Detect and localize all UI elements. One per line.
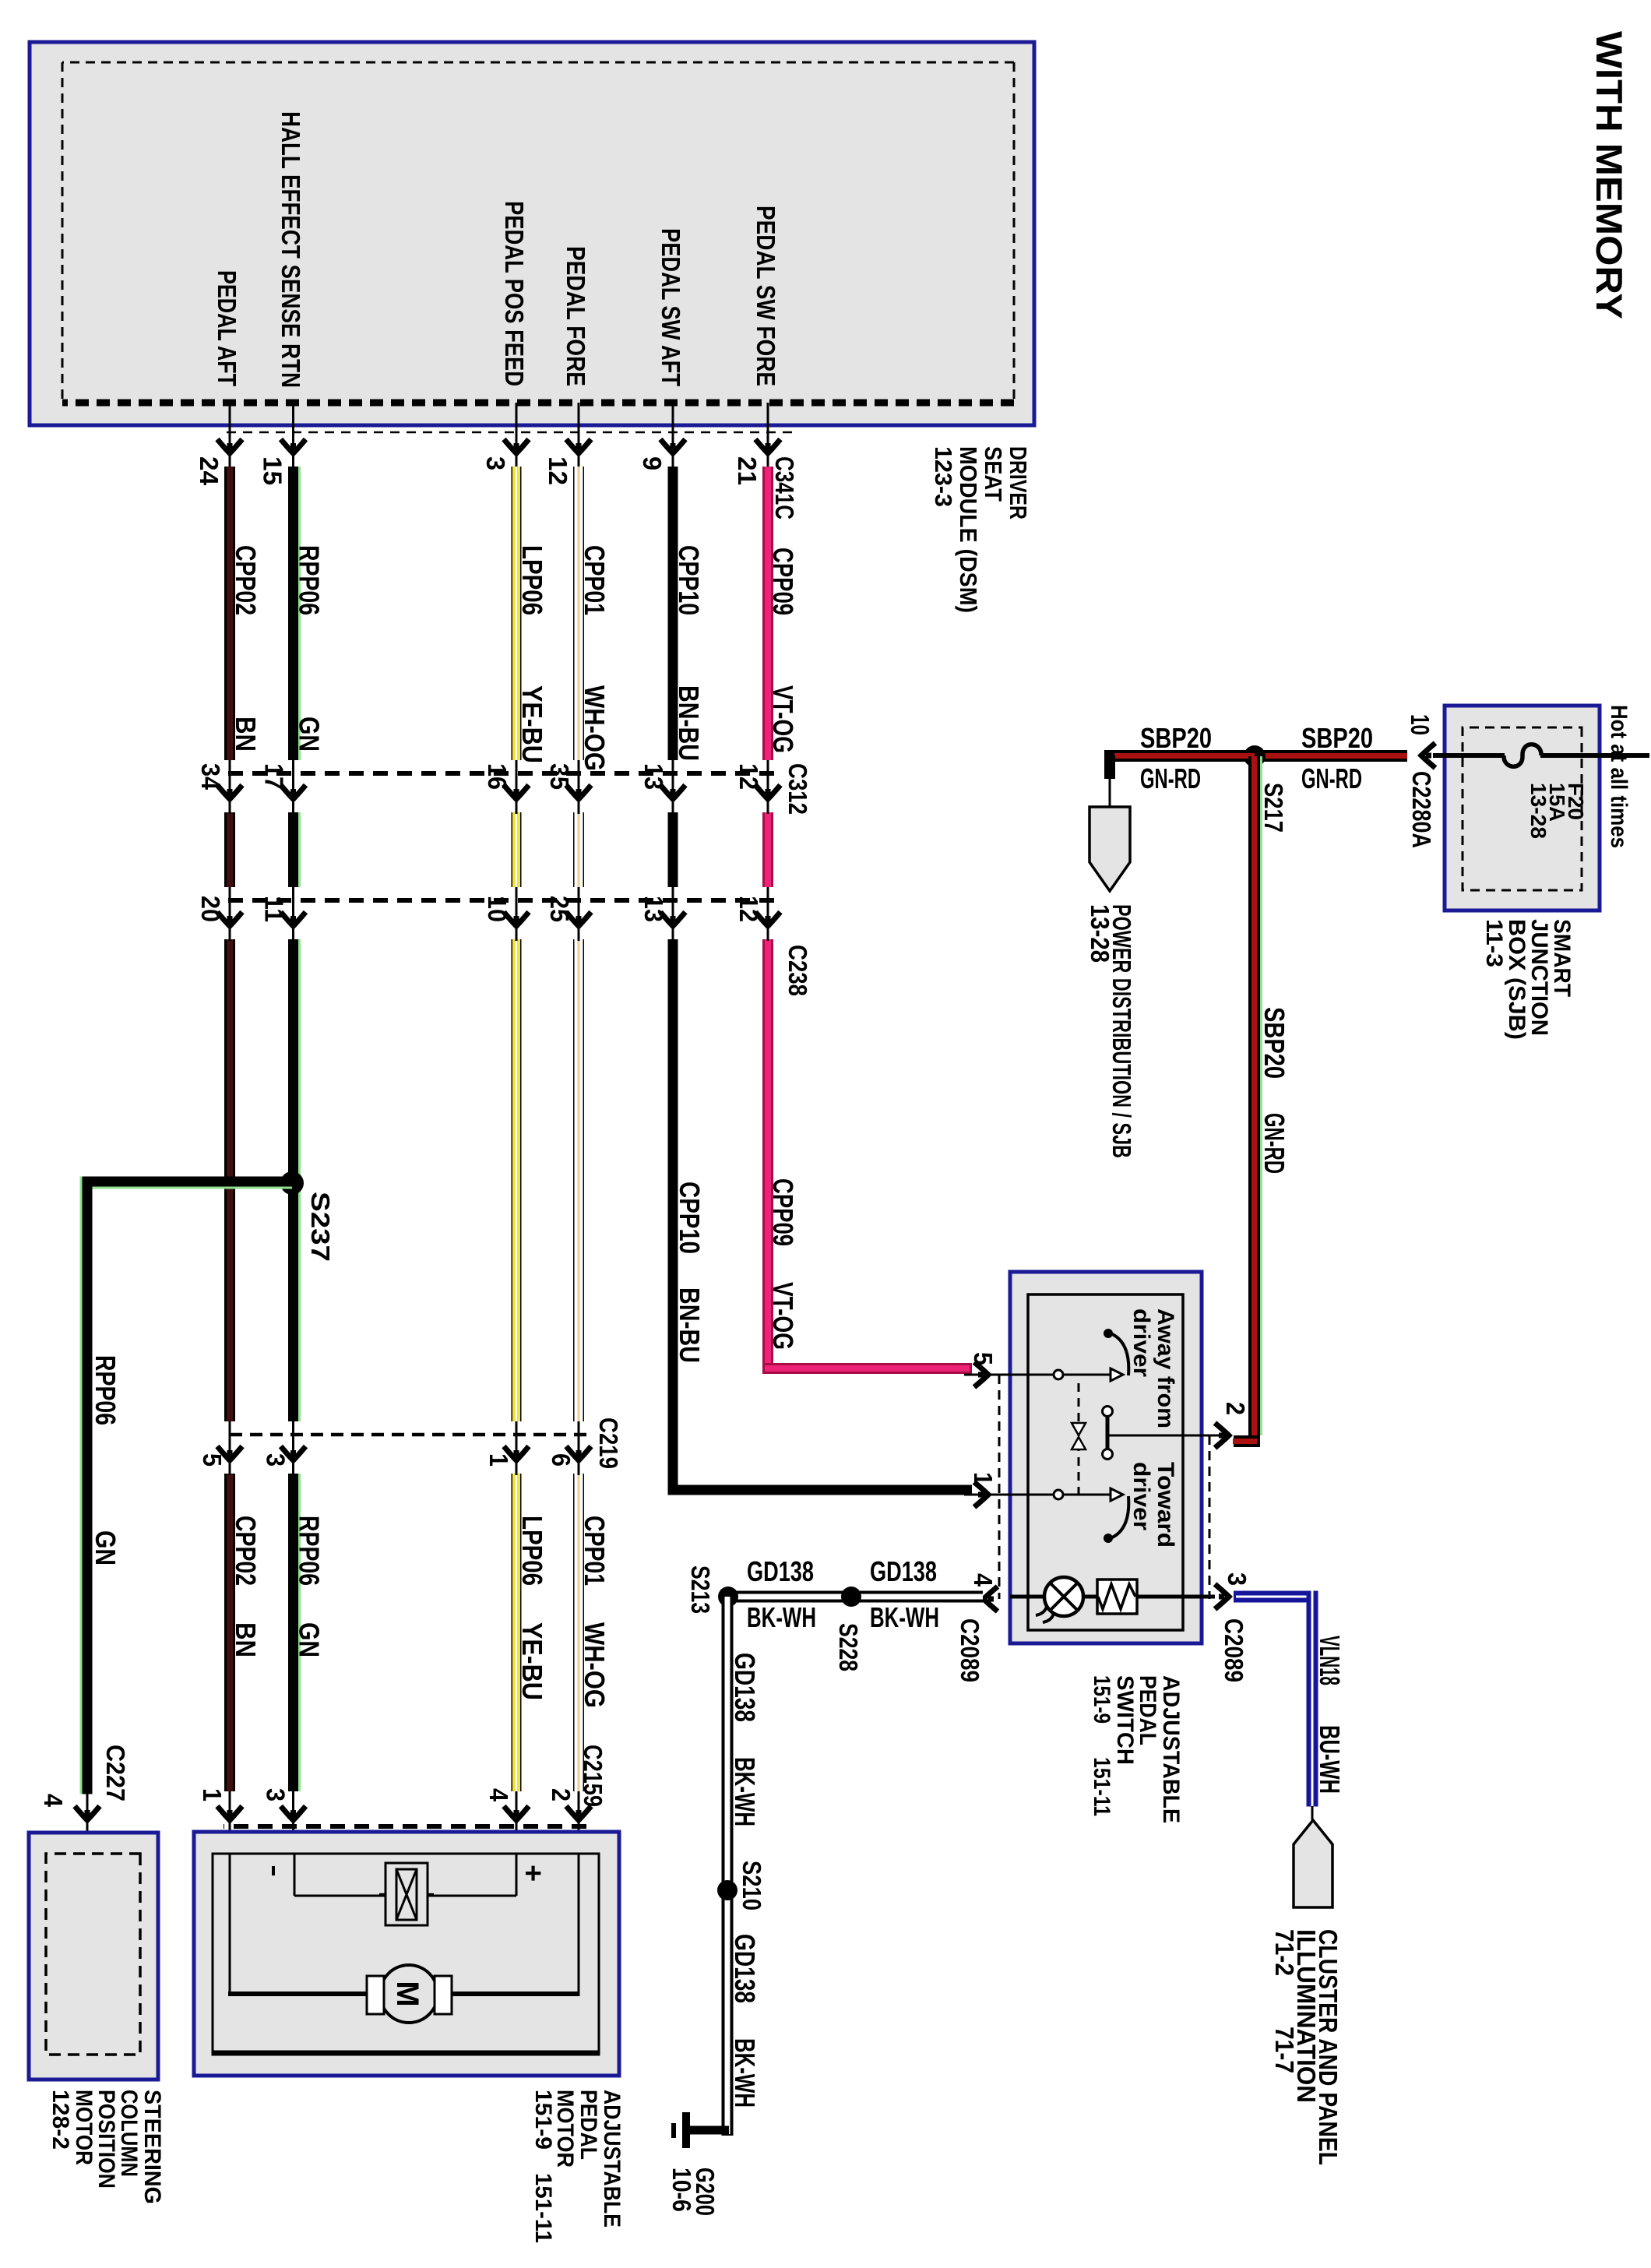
DSM connector face (thick dashed) bbox=[62, 400, 1014, 407]
svg-text:C2089: C2089 bbox=[956, 1618, 984, 1682]
svg-text:35: 35 bbox=[545, 763, 574, 790]
pin 2 internal line bbox=[1107, 1435, 1227, 1437]
svg-text:GD138: GD138 bbox=[747, 1555, 814, 1587]
svg-text:BN-BU: BN-BU bbox=[674, 1287, 706, 1363]
power distribution stub bbox=[1109, 779, 1111, 807]
component box: ADJUSTABLE PEDAL MOTOR bbox=[194, 1832, 619, 2076]
svg-text:Hot at all times: Hot at all times bbox=[1606, 705, 1632, 848]
C219 wire stub & arrow at pin 1 bbox=[516, 1421, 518, 1475]
C238 wire stub & arrow at pin 20 bbox=[229, 887, 231, 941]
motor internal wire pin2 bbox=[578, 1854, 580, 1996]
pin 4/3 illumination line bbox=[1010, 1595, 1215, 1599]
svg-text:WITH MEMORY: WITH MEMORY bbox=[1589, 31, 1630, 319]
svg-text:RPP06: RPP06 bbox=[294, 545, 326, 615]
svg-text:S237: S237 bbox=[306, 1192, 335, 1262]
svg-text:SWITCH: SWITCH bbox=[1112, 1675, 1138, 1765]
component box: STEERING COLUMN POSITION MOTOR bbox=[29, 1833, 158, 2080]
connector C238 dashed line bbox=[223, 898, 774, 903]
svg-text:WH-OG: WH-OG bbox=[579, 1622, 611, 1708]
pin 1 internal line bbox=[1010, 1494, 1111, 1496]
toward switch arm arc bbox=[1111, 1496, 1128, 1538]
svg-text:BU-WH: BU-WH bbox=[1314, 1725, 1346, 1794]
svg-text:COLUMN: COLUMN bbox=[116, 2090, 142, 2177]
svg-text:PEDAL SW FORE: PEDAL SW FORE bbox=[752, 206, 780, 386]
svg-text:5: 5 bbox=[198, 1453, 227, 1467]
svg-text:BN-BU: BN-BU bbox=[673, 685, 705, 761]
fuse feed line bbox=[1540, 753, 1649, 758]
svg-text:LPP06: LPP06 bbox=[516, 545, 548, 615]
svg-text:GD138: GD138 bbox=[729, 1934, 761, 2003]
connector C219 dashed line bbox=[224, 1433, 586, 1437]
svg-text:1: 1 bbox=[969, 1472, 998, 1485]
svg-text:YE-BU: YE-BU bbox=[516, 1622, 548, 1700]
svg-text:16: 16 bbox=[483, 763, 512, 790]
svg-text:S213: S213 bbox=[686, 1565, 715, 1614]
svg-text:13: 13 bbox=[639, 896, 668, 922]
svg-text:GD138: GD138 bbox=[729, 1653, 761, 1722]
C219 wire stub & arrow at pin 3 bbox=[292, 1421, 294, 1475]
wire SBP20 GN-RD vertical from fuse bbox=[1257, 750, 1407, 762]
motor internal wire pin1 bbox=[229, 1854, 231, 1996]
pin 3 arrow bbox=[1215, 1584, 1229, 1609]
svg-text:12: 12 bbox=[734, 896, 763, 922]
svg-text:GN-RD: GN-RD bbox=[1140, 762, 1201, 794]
svg-text:BN: BN bbox=[230, 717, 262, 752]
wire CPP02 BN (DSM pin 24) bbox=[224, 467, 235, 760]
C2159 wire stub & arrow at pin 3 bbox=[292, 1791, 294, 1854]
wire SBP20 GN-RD horizontal to switch pin 2 bbox=[1248, 756, 1260, 1441]
svg-text:HALL EFFECT SENSE RTN: HALL EFFECT SENSE RTN bbox=[276, 111, 305, 388]
splice S237 bbox=[280, 1171, 304, 1195]
mechanical link bowtie bbox=[1072, 1423, 1086, 1435]
SJB inner dashed rect bbox=[1463, 727, 1582, 890]
svg-text:13-28: 13-28 bbox=[1526, 783, 1551, 839]
svg-text:SBP20: SBP20 bbox=[1258, 1007, 1290, 1079]
svg-text:10: 10 bbox=[1406, 714, 1435, 735]
svg-text:151-11: 151-11 bbox=[1089, 1757, 1114, 1816]
svg-text:CPP02: CPP02 bbox=[230, 1516, 262, 1586]
svg-text:6: 6 bbox=[547, 1453, 576, 1467]
svg-text:ADJUSTABLE: ADJUSTABLE bbox=[599, 2090, 625, 2227]
C238 wire stub & arrow at pin 11 bbox=[292, 887, 294, 941]
svg-text:MOTOR: MOTOR bbox=[71, 2090, 97, 2165]
svg-text:C2089: C2089 bbox=[1220, 1618, 1248, 1682]
pin 4 arrow bbox=[984, 1587, 998, 1611]
svg-text:C219: C219 bbox=[594, 1417, 623, 1469]
svg-text:17: 17 bbox=[260, 763, 289, 790]
splice S217 bbox=[1244, 745, 1266, 767]
svg-text:24: 24 bbox=[195, 456, 224, 486]
svg-text:PEDAL: PEDAL bbox=[576, 2090, 601, 2160]
svg-text:YE-BU: YE-BU bbox=[516, 685, 548, 763]
C238 wire stub & arrow at pin 25 bbox=[578, 887, 580, 941]
wire CPP01 WH-OG (DSM pin 12) bbox=[573, 467, 584, 760]
wire LPP06 YE-BU (DSM pin 3) bbox=[512, 467, 522, 760]
svg-text:PEDAL POS FEED: PEDAL POS FEED bbox=[500, 201, 529, 386]
svg-text:SMART: SMART bbox=[1549, 919, 1575, 997]
svg-text:GD138: GD138 bbox=[870, 1555, 937, 1587]
svg-text:BK-WH: BK-WH bbox=[870, 1601, 939, 1633]
position sensor feed lines bbox=[428, 1895, 516, 1897]
C2159 wire stub & arrow at pin 2 bbox=[578, 1791, 580, 1854]
motor internal wire pin4 bbox=[516, 1854, 518, 1896]
svg-text:13: 13 bbox=[639, 763, 668, 790]
svg-text:71-2: 71-2 bbox=[1270, 1929, 1299, 1976]
svg-text:BK-WH: BK-WH bbox=[729, 1757, 761, 1826]
svg-text:11-3: 11-3 bbox=[1481, 919, 1507, 967]
lamp symbol bbox=[1044, 1577, 1083, 1616]
svg-text:VLN18: VLN18 bbox=[1314, 1636, 1346, 1685]
svg-text:ADJUSTABLE: ADJUSTABLE bbox=[1158, 1675, 1184, 1823]
position sensor symbol bbox=[385, 1863, 428, 1925]
C341C pin 9 wire stub bbox=[672, 403, 674, 467]
C312 wire stub & arrow at pin 17 bbox=[292, 760, 294, 814]
svg-text:RPP06: RPP06 bbox=[294, 1516, 326, 1586]
svg-text:2: 2 bbox=[547, 1788, 576, 1801]
switch inner rectangle bbox=[1028, 1294, 1183, 1630]
svg-text:driver: driver bbox=[1128, 1462, 1154, 1530]
svg-text:5: 5 bbox=[969, 1352, 998, 1365]
label minus bbox=[272, 1866, 275, 1875]
svg-text:PEDAL SW AFT: PEDAL SW AFT bbox=[657, 228, 685, 386]
C341C pin 24 wire stub bbox=[229, 403, 231, 467]
svg-text:M: M bbox=[390, 1981, 424, 2006]
motor box inner rectangle bbox=[213, 1854, 599, 2055]
wire VLN18 BU-WH horizontal bbox=[1307, 1591, 1318, 1807]
pin 5 contact circle bbox=[1054, 1370, 1063, 1379]
C219 wire stub & arrow at pin 6 bbox=[578, 1421, 580, 1475]
resistor symbol bbox=[1097, 1579, 1137, 1614]
svg-text:MODULE (DSM): MODULE (DSM) bbox=[955, 446, 982, 613]
svg-text:Away from: Away from bbox=[1153, 1308, 1178, 1428]
svg-text:JUNCTION: JUNCTION bbox=[1526, 919, 1552, 1036]
svg-text:C2159: C2159 bbox=[579, 1745, 607, 1807]
svg-text:GN-RD: GN-RD bbox=[1258, 1113, 1290, 1174]
C341C pin 21 wire stub bbox=[767, 403, 769, 467]
svg-text:SBP20: SBP20 bbox=[1140, 722, 1212, 754]
motor M circle bbox=[380, 1965, 438, 2023]
C312 wire stub & arrow at pin 16 bbox=[516, 760, 518, 814]
svg-text:PEDAL: PEDAL bbox=[1135, 1675, 1160, 1745]
pin 1 arrow bbox=[964, 1494, 1010, 1496]
wire VLN18 BU-WH vertical at pin 3 bbox=[1234, 1591, 1312, 1603]
C238 wire stub & arrow at pin 12 bbox=[767, 887, 769, 941]
svg-text:LPP06: LPP06 bbox=[516, 1516, 548, 1586]
branch wire RPP06 GN horizontal to C227 bbox=[83, 1177, 93, 1794]
svg-text:3: 3 bbox=[262, 1788, 290, 1801]
branch wire RPP06 GN vertical from S237 bbox=[87, 1177, 292, 1187]
svg-text:151-9: 151-9 bbox=[1089, 1675, 1114, 1724]
svg-text:BK-WH: BK-WH bbox=[747, 1601, 816, 1633]
svg-text:12: 12 bbox=[734, 763, 763, 790]
toward switch fixed contact bbox=[1111, 1488, 1123, 1501]
switch connector dashed (top) bbox=[1209, 1435, 1211, 1599]
svg-text:BK-WH: BK-WH bbox=[729, 2038, 761, 2108]
C312 wire stub & arrow at pin 12 bbox=[767, 760, 769, 814]
wire GD138 BK-WH vertical (switch pin 4 down) bbox=[728, 1591, 983, 1603]
C2159 wire stub & arrow at pin 1 bbox=[229, 1791, 231, 1854]
C219 wire stub & arrow at pin 5 bbox=[229, 1421, 231, 1475]
svg-text:S210: S210 bbox=[737, 1861, 766, 1911]
svg-text:128-2: 128-2 bbox=[48, 2090, 73, 2150]
connector C227 stub & arrow bbox=[86, 1794, 89, 1854]
svg-text:WH-OG: WH-OG bbox=[579, 685, 611, 771]
motor brushes bbox=[435, 1976, 452, 2014]
motor box inner rectangle thick right edge bbox=[213, 2051, 599, 2056]
svg-text:151-11: 151-11 bbox=[530, 2173, 556, 2243]
steering box inner dashed rect bbox=[46, 1854, 140, 2055]
off-page arrow: CLUSTER AND PANEL ILLUMINATION bbox=[1294, 1820, 1332, 1907]
away switch arm arc bbox=[1111, 1333, 1128, 1375]
svg-text:BOX (SJB): BOX (SJB) bbox=[1504, 919, 1530, 1040]
svg-text:GN: GN bbox=[294, 717, 326, 752]
svg-text:POSITION: POSITION bbox=[93, 2090, 119, 2189]
wire SBP20 corner to power distribution bbox=[1110, 755, 1114, 779]
motor bus wire (pin1 to motor) bbox=[228, 1992, 371, 1996]
svg-text:151-9: 151-9 bbox=[530, 2090, 556, 2150]
component box: ADJUSTABLE PEDAL SWITCH bbox=[1010, 1272, 1202, 1643]
svg-text:CPP09: CPP09 bbox=[767, 548, 799, 615]
wire RPP06 GN (DSM pin 15) bbox=[298, 467, 301, 760]
svg-text:BN: BN bbox=[230, 1622, 262, 1657]
svg-text:CPP09: CPP09 bbox=[767, 1178, 799, 1246]
wire CPP09 VT-OG vertical to switch pin 5 bbox=[762, 1363, 972, 1374]
connector C341C dashed line bbox=[226, 431, 792, 434]
svg-text:1: 1 bbox=[484, 1453, 513, 1467]
connector C312 dashed line bbox=[223, 771, 774, 776]
ground drop wire bbox=[686, 2126, 729, 2135]
away switch fixed contact bbox=[1111, 1368, 1123, 1381]
svg-text:15: 15 bbox=[259, 456, 287, 485]
C341C pin 15 wire stub bbox=[292, 403, 294, 467]
svg-text:CPP01: CPP01 bbox=[579, 545, 611, 615]
switch connector dashed (bottom) bbox=[998, 1375, 1001, 1599]
wire CPP10 BN-BU (DSM pin 9) bbox=[668, 467, 678, 760]
svg-text:4: 4 bbox=[39, 1794, 68, 1808]
svg-text:GN: GN bbox=[294, 1622, 326, 1657]
C2159 wire stub & arrow at pin 4 bbox=[516, 1791, 518, 1854]
svg-text:C341C: C341C bbox=[770, 456, 799, 519]
svg-text:34: 34 bbox=[196, 763, 225, 791]
svg-text:Toward: Toward bbox=[1153, 1462, 1178, 1548]
wire GD138 BK-WH horizontal to ground bbox=[722, 1597, 734, 2136]
fuse F20 symbol bbox=[1504, 745, 1541, 767]
DSM inner dashed outline bbox=[1013, 62, 1016, 400]
mechanical link dashed bbox=[1078, 1383, 1080, 1495]
C312 wire stub & arrow at pin 13 bbox=[672, 760, 674, 814]
wire SBP20 GN-RD vertical below S217 bbox=[1114, 750, 1255, 762]
svg-text:PEDAL FORE: PEDAL FORE bbox=[561, 246, 590, 386]
svg-text:VT-OG: VT-OG bbox=[767, 1282, 799, 1350]
pin 5 internal line bbox=[1010, 1374, 1111, 1376]
svg-text:123-3: 123-3 bbox=[930, 446, 957, 507]
C341C pin 3 wire stub bbox=[516, 403, 518, 467]
svg-text:3: 3 bbox=[1223, 1572, 1251, 1586]
svg-text:CPP02: CPP02 bbox=[230, 545, 262, 615]
svg-text:GN-RD: GN-RD bbox=[1301, 762, 1362, 794]
C312 wire stub & arrow at pin 34 bbox=[229, 760, 231, 814]
pin 2 arrow bbox=[1215, 1423, 1229, 1448]
svg-text:CPP10: CPP10 bbox=[673, 545, 705, 615]
motor bus wire (pin2 to motor) bbox=[448, 1992, 579, 1996]
motor internal wire pin3 bbox=[294, 1854, 296, 1896]
svg-text:GN: GN bbox=[90, 1530, 121, 1565]
svg-text:21: 21 bbox=[733, 456, 762, 485]
svg-text:STEERING: STEERING bbox=[139, 2090, 165, 2204]
svg-text:11: 11 bbox=[260, 896, 289, 922]
svg-text:C312: C312 bbox=[783, 763, 812, 815]
svg-text:C227: C227 bbox=[101, 1745, 130, 1801]
svg-text:CPP01: CPP01 bbox=[579, 1516, 611, 1586]
svg-text:25: 25 bbox=[545, 896, 574, 922]
module box: DRIVER SEAT MODULE (DSM) bbox=[30, 42, 1034, 425]
wire SBP20 corner down to pin 2 bbox=[1234, 1435, 1260, 1447]
pin 2 moving contact bar bbox=[1106, 1411, 1110, 1454]
svg-text:12: 12 bbox=[544, 456, 572, 485]
ground symbol G200 bbox=[682, 2112, 690, 2148]
svg-text:DRIVER: DRIVER bbox=[1005, 446, 1032, 519]
svg-text:4: 4 bbox=[484, 1788, 513, 1802]
splice S213 bbox=[718, 1587, 738, 1607]
cluster stub bbox=[1311, 1806, 1314, 1824]
svg-text:PEDAL AFT: PEDAL AFT bbox=[213, 270, 241, 386]
splice S210 bbox=[717, 1880, 737, 1900]
off-page arrow: POWER DISTRIBUTION / SJB bbox=[1090, 807, 1130, 891]
C312 wire stub & arrow at pin 35 bbox=[578, 760, 580, 814]
connector C2159 dashed line bbox=[224, 1824, 586, 1829]
pin 1 contact circle bbox=[1054, 1490, 1063, 1499]
C341C pin 12 wire stub bbox=[578, 403, 580, 467]
svg-text:13-28: 13-28 bbox=[1086, 904, 1114, 963]
svg-text:3: 3 bbox=[481, 456, 510, 470]
svg-text:VT-OG: VT-OG bbox=[767, 685, 799, 753]
svg-text:10: 10 bbox=[483, 896, 512, 922]
svg-text:S228: S228 bbox=[834, 1623, 863, 1671]
svg-text:1: 1 bbox=[198, 1788, 227, 1801]
svg-text:20: 20 bbox=[196, 896, 225, 922]
svg-text:C2280A: C2280A bbox=[1407, 771, 1436, 848]
svg-text:S217: S217 bbox=[1259, 783, 1288, 833]
svg-text:driver: driver bbox=[1128, 1308, 1154, 1377]
svg-text:RPP06: RPP06 bbox=[90, 1355, 121, 1425]
svg-text:71-7: 71-7 bbox=[1270, 2027, 1299, 2073]
svg-text:3: 3 bbox=[262, 1453, 290, 1467]
svg-text:+: + bbox=[516, 1865, 549, 1882]
svg-text:10-6: 10-6 bbox=[667, 2168, 696, 2212]
svg-text:SBP20: SBP20 bbox=[1301, 722, 1373, 754]
svg-text:4: 4 bbox=[969, 1573, 998, 1587]
svg-text:SEAT: SEAT bbox=[980, 446, 1007, 502]
wire CPP09 VT-OG (DSM pin 21) bbox=[762, 467, 773, 760]
svg-text:2: 2 bbox=[1221, 1402, 1250, 1415]
C238 wire stub & arrow at pin 10 bbox=[516, 887, 518, 941]
svg-text:C238: C238 bbox=[783, 945, 812, 996]
component box: SMART JUNCTION BOX (SJB) bbox=[1445, 706, 1600, 910]
svg-text:9: 9 bbox=[638, 456, 667, 470]
pin 5 arrow bbox=[964, 1374, 1010, 1376]
C238 wire stub & arrow at pin 13 bbox=[672, 887, 674, 941]
wire CPP10 BN-BU vertical to switch pin 1 bbox=[668, 1485, 973, 1495]
splice S228 bbox=[841, 1587, 861, 1607]
connector C2280A arrow (pin 10) bbox=[1421, 743, 1435, 768]
svg-text:CPP10: CPP10 bbox=[674, 1182, 706, 1254]
